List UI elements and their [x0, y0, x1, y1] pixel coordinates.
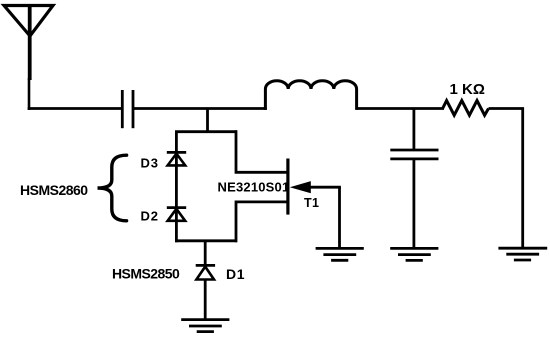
- diode box bottom wire: [175, 239, 237, 242]
- svg-text:D3: D3: [141, 156, 159, 171]
- ground under T1: [316, 248, 364, 260]
- diode D1: [196, 265, 215, 279]
- diode box left wire: [175, 132, 178, 243]
- transistor T1 body bar: [286, 159, 289, 215]
- diode box top wire: [175, 130, 237, 133]
- diode D2: [167, 208, 186, 221]
- wire C2 to ground: [412, 159, 415, 249]
- ground right: [498, 248, 547, 260]
- node stub to diode box: [206, 109, 209, 134]
- diode box right wire lower: [236, 202, 288, 242]
- svg-text:NE3210S01: NE3210S01: [218, 180, 290, 195]
- resistor R1: [443, 101, 489, 116]
- ground under D1: [181, 320, 229, 332]
- svg-text:1 KΩ: 1 KΩ: [450, 81, 485, 98]
- transistor T1 gate arrow: [290, 181, 341, 193]
- shunt capacitor C2: [390, 150, 438, 159]
- brace for HSMS2860: [98, 155, 127, 221]
- wire antenna to C1: [28, 107, 123, 110]
- diode box right wire upper: [236, 130, 288, 172]
- antenna: [4, 6, 53, 111]
- node stub to shunt capacitor: [412, 109, 415, 151]
- wire resistor to right corner: [489, 109, 523, 250]
- svg-text:D1: D1: [226, 266, 245, 282]
- wire D1 to ground: [204, 280, 207, 320]
- gate wire to ground: [338, 187, 341, 249]
- stub box to D1: [204, 241, 207, 267]
- capacitor C1: [122, 90, 133, 128]
- svg-text:HSMS2860: HSMS2860: [20, 182, 88, 198]
- svg-text:T1: T1: [304, 196, 319, 210]
- svg-text:D2: D2: [141, 208, 159, 223]
- wire C1 to inductor: [133, 107, 267, 110]
- svg-text:HSMS2850: HSMS2850: [112, 266, 180, 282]
- ground under C2: [390, 248, 438, 260]
- inductor L1: [265, 81, 356, 110]
- diode D3: [167, 152, 186, 165]
- wire inductor to resistor: [357, 107, 444, 110]
